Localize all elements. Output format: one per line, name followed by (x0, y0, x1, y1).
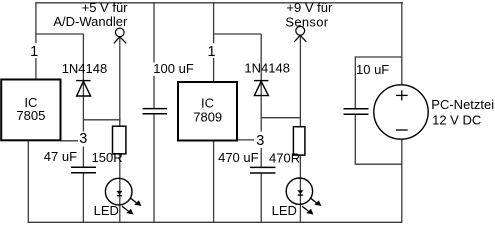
svg-text:10 uF: 10 uF (356, 62, 389, 77)
svg-text:1: 1 (208, 44, 216, 60)
svg-text:150R: 150R (92, 150, 123, 165)
svg-text:7805: 7805 (16, 108, 45, 123)
svg-text:A/D-Wandler: A/D-Wandler (53, 14, 128, 29)
svg-text:470 uF: 470 uF (218, 150, 259, 165)
svg-text:+5 V für: +5 V für (82, 0, 129, 15)
svg-text:+9 V für: +9 V für (286, 0, 333, 15)
svg-text:IC: IC (201, 95, 214, 110)
svg-text:470R: 470R (269, 150, 300, 165)
svg-text:Sensor: Sensor (285, 15, 328, 30)
svg-text:1: 1 (30, 44, 38, 60)
svg-text:100 uF: 100 uF (153, 61, 194, 76)
svg-text:7809: 7809 (193, 110, 222, 125)
svg-text:PC-Netzteil: PC-Netzteil (431, 97, 495, 112)
svg-text:12 V DC: 12 V DC (432, 113, 481, 128)
svg-text:3: 3 (256, 133, 264, 149)
svg-text:LED: LED (94, 203, 119, 218)
svg-text:LED: LED (272, 203, 297, 218)
svg-text:1N4148: 1N4148 (62, 61, 108, 76)
svg-text:3: 3 (79, 131, 87, 147)
svg-text:1N4148: 1N4148 (244, 61, 290, 76)
svg-text:47 uF: 47 uF (44, 149, 77, 164)
